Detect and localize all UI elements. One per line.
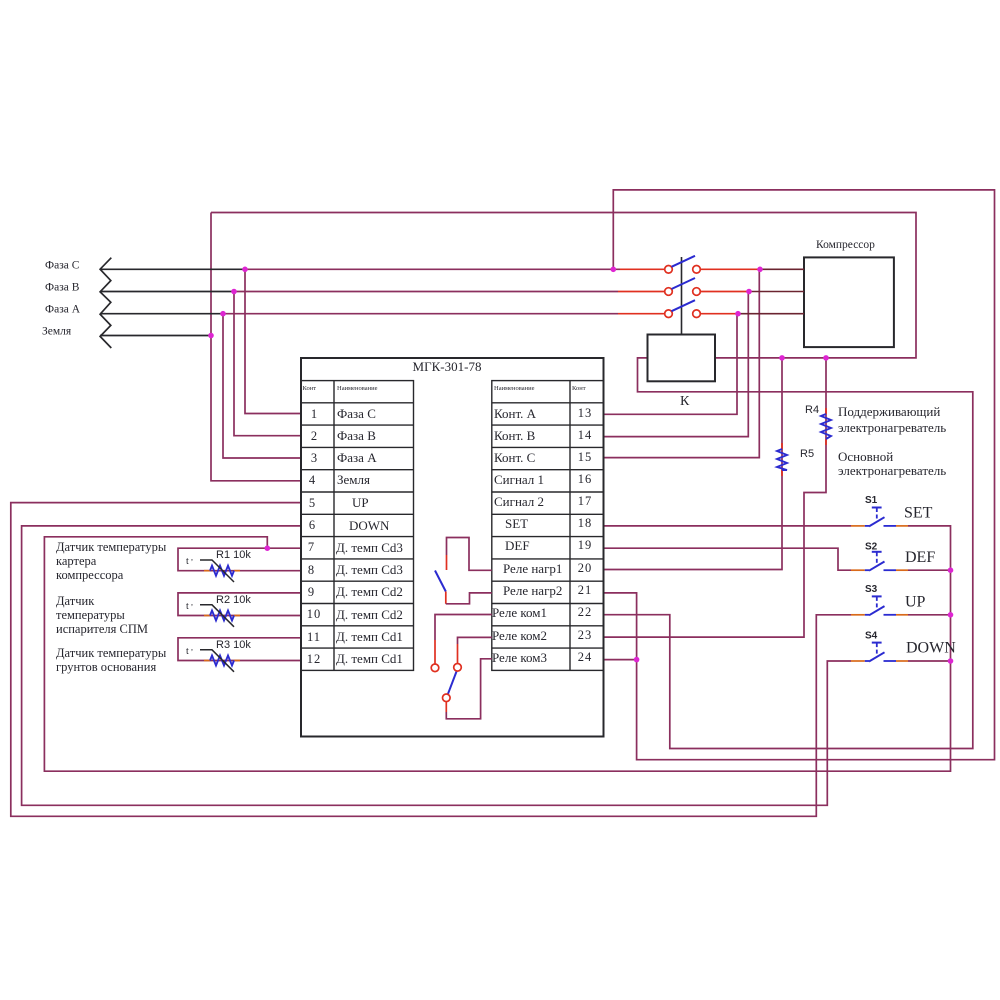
svg-text:15: 15: [578, 450, 593, 464]
svg-text:t: t: [186, 646, 189, 657]
junction: R4 tap on feed: [823, 355, 829, 361]
phase input arrows zigzag: [100, 258, 111, 348]
wire: pin18 to S1: [603, 525, 851, 527]
svg-text:S3: S3: [865, 584, 878, 595]
wire: S common bus down-around to pin7 junction: [44, 526, 950, 771]
resistor R3 thermistor: [186, 639, 251, 672]
wire: ground black lead-in: [100, 335, 211, 337]
wire: loop pin21/pin24 to phase C via top-right frame: [603, 190, 995, 760]
svg-text:Реле нагр1: Реле нагр1: [503, 561, 562, 576]
left table header text: [303, 385, 378, 392]
wire: phase C black lead-in: [100, 268, 245, 270]
svg-text:DEF: DEF: [905, 549, 935, 566]
junction: S-bus to pin7 wire: [265, 545, 271, 551]
svg-text:R5: R5: [800, 448, 814, 460]
svg-text:Конт. С: Конт. С: [494, 450, 535, 465]
svg-text:картера: картера: [56, 554, 97, 568]
svg-text:14: 14: [578, 428, 593, 442]
junction: S4 on bus: [948, 658, 954, 664]
svg-text:МГК-301-78: МГК-301-78: [413, 359, 482, 374]
svg-text:грунтов основания: грунтов основания: [56, 660, 156, 674]
wire: phase B to contactor: [234, 291, 618, 293]
svg-text:Основной: Основной: [838, 449, 893, 464]
svg-text:Земля: Земля: [337, 472, 370, 487]
svg-text:Фаза В: Фаза В: [45, 282, 80, 294]
right table header text: [494, 385, 586, 392]
svg-text:компрессора: компрессора: [56, 568, 124, 582]
wire: phase C drop to pin1: [245, 269, 301, 413]
junction: contactor out C to pin15: [757, 267, 763, 273]
right table name texts: [492, 406, 562, 665]
compressor box: [804, 257, 894, 347]
svg-text:5: 5: [309, 496, 315, 510]
contactor pole phase C: [620, 256, 804, 273]
junction: ground drop: [208, 333, 214, 339]
svg-text:,: ,: [191, 553, 193, 562]
svg-text:Конт. А: Конт. А: [494, 406, 537, 421]
svg-text:Конт: Конт: [572, 385, 586, 392]
junction: contactor out A to pin13: [735, 311, 741, 317]
svg-text:2: 2: [311, 429, 317, 443]
svg-text:1: 1: [311, 407, 317, 421]
wire: S2 right lead to bus: [908, 569, 951, 571]
svg-text:16: 16: [578, 472, 593, 486]
svg-text:Фаза С: Фаза С: [45, 260, 80, 272]
svg-text:S4: S4: [865, 630, 878, 641]
svg-text:Наименование: Наименование: [337, 385, 378, 392]
wire: phase A to contactor: [223, 313, 618, 315]
svg-text:Реле ком2: Реле ком2: [492, 628, 547, 643]
svg-text:17: 17: [578, 494, 593, 508]
wire: S3 loop to pin5 UP: [11, 503, 851, 817]
contactor mechanical link: [681, 257, 683, 335]
svg-text:Конт. В: Конт. В: [494, 428, 536, 443]
svg-text:Земля: Земля: [42, 326, 72, 338]
svg-text:3: 3: [311, 451, 317, 465]
svg-text:DOWN: DOWN: [349, 518, 390, 533]
svg-text:t: t: [186, 601, 189, 612]
svg-text:UP: UP: [352, 495, 369, 510]
wire: R3 sensor loop pin11-pin12: [178, 638, 301, 661]
svg-text:Датчик: Датчик: [56, 594, 95, 608]
svg-text:4: 4: [309, 473, 316, 487]
svg-text:,: ,: [191, 598, 193, 607]
svg-text:испарителя СПМ: испарителя СПМ: [56, 622, 148, 636]
contactor coil K box: [648, 335, 716, 382]
internal relay contact heater (pin20-pin21): [435, 538, 492, 604]
resistor R1 thermistor: [186, 549, 251, 582]
junction: phase A drop: [220, 311, 226, 317]
svg-text:22: 22: [578, 605, 593, 619]
junction: contactor out B to pin14: [746, 289, 752, 295]
svg-text:Сигнал 1: Сигнал 1: [494, 472, 544, 487]
resistor R5 heater: [777, 443, 814, 476]
svg-text:t: t: [186, 556, 189, 567]
svg-text:температуры: температуры: [56, 608, 125, 622]
internal relay changeover contact (pin22/pin23/pin24): [431, 615, 492, 719]
junction: R5 tap on feed: [779, 355, 785, 361]
svg-text:S2: S2: [865, 541, 878, 552]
svg-text:21: 21: [578, 583, 593, 597]
svg-text:18: 18: [578, 516, 593, 530]
svg-text:13: 13: [578, 406, 593, 420]
svg-text:S1: S1: [865, 495, 878, 506]
svg-text:DEF: DEF: [505, 538, 530, 553]
svg-text:Реле ком3: Реле ком3: [492, 650, 547, 665]
wire: phase B black lead-in: [100, 291, 234, 293]
wire: phase C to contactor: [245, 268, 620, 270]
svg-text:Сигнал 2: Сигнал 2: [494, 494, 544, 509]
svg-text:Д. темп Cd2: Д. темп Cd2: [336, 584, 403, 599]
wire: R1 sensor loop pin7-pin8: [178, 548, 301, 571]
resistor R2 thermistor: [186, 594, 251, 627]
svg-text:Датчик температуры: Датчик температуры: [56, 540, 167, 554]
svg-text:К: К: [680, 394, 690, 409]
wire: phase A black lead-in: [100, 313, 223, 315]
svg-text:Датчик температуры: Датчик температуры: [56, 646, 167, 660]
svg-text:Д. темп Cd3: Д. темп Cd3: [336, 540, 403, 555]
svg-text:Фаза В: Фаза В: [337, 428, 376, 443]
wire: contactor out C drop to pin15: [603, 269, 759, 457]
wire: S4 right lead to bus: [908, 660, 951, 662]
left table pin numbers: [307, 407, 322, 666]
svg-text:Фаза А: Фаза А: [337, 450, 377, 465]
left table name texts: [336, 406, 403, 666]
svg-text:электронагреватель: электронагреватель: [838, 420, 946, 435]
svg-text:19: 19: [578, 538, 593, 552]
svg-text:DOWN: DOWN: [906, 640, 956, 657]
wire: K coil loop to pin22: [603, 358, 973, 749]
svg-text:24: 24: [578, 650, 593, 664]
contactor pole phase B: [618, 278, 804, 295]
svg-text:Наименование: Наименование: [494, 385, 535, 392]
svg-text:R3 10k: R3 10k: [216, 639, 251, 651]
switch S4 DOWN: [851, 630, 956, 661]
controller box MGK-301-78: [301, 358, 604, 737]
wire: R4 branch from feed to pin23: [603, 358, 826, 637]
svg-text:7: 7: [308, 540, 314, 554]
svg-text:Д. темп Cd1: Д. темп Cd1: [336, 651, 403, 666]
right table pin numbers: [578, 406, 593, 664]
svg-text:9: 9: [308, 585, 314, 599]
wire: phase A drop to pin3: [223, 314, 301, 458]
svg-text:электронагреватель: электронагреватель: [838, 463, 946, 478]
svg-text:Реле ком1: Реле ком1: [492, 605, 547, 620]
svg-text:20: 20: [578, 561, 593, 575]
junction: pin21 wire on pin24 wire: [634, 657, 640, 663]
resistor R4 heater: [805, 404, 831, 445]
svg-text:SET: SET: [505, 516, 528, 531]
svg-text:,: ,: [191, 643, 193, 652]
contactor pole phase A: [618, 300, 804, 317]
svg-text:Реле нагр2: Реле нагр2: [503, 583, 562, 598]
wire: second top frame from x211 to contactor feed y358: [211, 213, 916, 358]
left terminal table: [301, 381, 414, 671]
svg-text:R4: R4: [805, 404, 819, 416]
switch S3 UP: [851, 584, 926, 615]
junction: phase B drop: [231, 289, 237, 295]
junction: phase C to top frame: [611, 267, 617, 273]
svg-text:23: 23: [578, 628, 593, 642]
svg-text:Компрессор: Компрессор: [816, 239, 875, 251]
wire: contactor out B drop to pin14: [603, 292, 748, 437]
wire: ground drop x211 to pin4: [211, 213, 301, 481]
switch S2 DEF: [851, 541, 935, 570]
junction: S3 on bus: [948, 612, 954, 618]
svg-text:Д. темп Cd2: Д. темп Cd2: [336, 607, 403, 622]
svg-text:12: 12: [307, 652, 322, 666]
svg-text:6: 6: [309, 518, 315, 532]
svg-text:8: 8: [308, 563, 314, 577]
svg-text:R2 10k: R2 10k: [216, 594, 251, 606]
wire: pin24 stub to junction: [603, 659, 637, 661]
svg-text:UP: UP: [905, 594, 926, 611]
junction: S2 on bus: [948, 567, 954, 573]
svg-text:SET: SET: [904, 505, 933, 522]
svg-text:Поддерживающий: Поддерживающий: [838, 404, 940, 419]
svg-text:11: 11: [307, 630, 321, 644]
svg-text:Конт: Конт: [303, 385, 317, 392]
switch S1 SET: [851, 495, 933, 526]
svg-text:Фаза А: Фаза А: [45, 304, 81, 316]
svg-text:Д. темп Cd3: Д. темп Cd3: [336, 562, 403, 577]
junction: phase C drop: [242, 267, 248, 273]
svg-text:Фаза С: Фаза С: [337, 406, 376, 421]
svg-text:R1 10k: R1 10k: [216, 549, 251, 561]
wire: S4 loop to pin6 DOWN: [22, 526, 851, 805]
wire: R5 branch from feed to pin20: [603, 358, 782, 570]
svg-text:Д. темп Cd1: Д. темп Cd1: [336, 629, 403, 644]
wire: contactor out A drop to pin13: [603, 314, 737, 415]
svg-text:10: 10: [307, 607, 322, 621]
wire: pin19 to S2: [603, 548, 851, 570]
right terminal table: [492, 381, 604, 671]
wire: S3 right lead to bus: [908, 614, 951, 616]
wire: phase B drop to pin2: [234, 292, 301, 436]
wire: R2 sensor loop pin9-pin10: [178, 593, 301, 616]
